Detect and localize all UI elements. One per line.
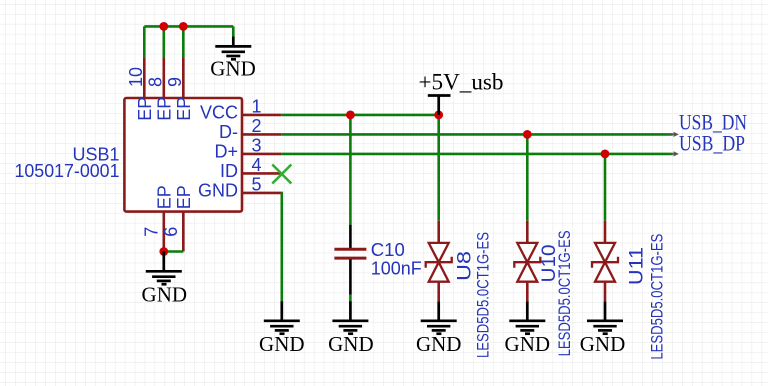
svg-text:EP: EP [135, 97, 155, 121]
pin 2 D- [242, 133, 281, 136]
svg-text:GND: GND [198, 181, 238, 201]
svg-text:4: 4 [251, 155, 261, 175]
junction U10/D- [523, 130, 532, 139]
svg-text:100nF: 100nF [371, 259, 422, 279]
svg-text:6: 6 [161, 227, 181, 237]
svg-text:LESD5D5.0CT1G-ES: LESD5D5.0CT1G-ES [555, 230, 574, 356]
svg-text:D+: D+ [214, 142, 238, 162]
wire VCC net [281, 114, 438, 117]
ground GND net pin5 [259, 301, 305, 356]
svg-text:GND: GND [580, 332, 626, 356]
wire to top ground [232, 26, 235, 37]
svg-text:105017-0001: 105017-0001 [15, 161, 120, 181]
svg-text:USB_DP: USB_DP [679, 131, 745, 156]
wire pin8 riser [163, 26, 166, 58]
wire GND pin5 [280, 193, 283, 302]
svg-text:GND: GND [142, 283, 188, 307]
svg-text:+5V_usb: +5V_usb [419, 70, 504, 95]
ground GND pins7-6 [142, 252, 188, 307]
svg-text:LESD5D5.0CT1G-ES: LESD5D5.0CT1G-ES [648, 234, 667, 360]
pin 10 [143, 58, 146, 98]
TVS diode U8 [426, 221, 493, 358]
pin 4 ID [242, 172, 281, 175]
svg-text:GND: GND [416, 332, 462, 356]
net arrow USB_DN [669, 133, 675, 135]
pin 7 [163, 212, 166, 252]
svg-text:GND: GND [259, 332, 305, 356]
wire USB_DP net [281, 153, 673, 156]
TVS diode U11 [592, 221, 667, 360]
svg-text:ID: ID [220, 161, 238, 181]
wire U8 branch [437, 115, 440, 221]
pin 3 D+ [242, 153, 281, 156]
wire U10 branch [526, 134, 529, 220]
svg-text:VCC: VCC [200, 103, 238, 123]
svg-text:EP: EP [174, 185, 194, 209]
pin 1 VCC [242, 114, 281, 117]
svg-text:1: 1 [251, 97, 261, 117]
wire C10 to ground [349, 295, 352, 302]
junction U11/D+ [601, 150, 610, 159]
ground GND U10 [505, 301, 551, 356]
ground GND C10 [328, 301, 374, 356]
no-connect X on ID pin [272, 165, 291, 184]
svg-text:D-: D- [219, 122, 238, 142]
svg-text:GND: GND [210, 56, 256, 80]
junction C10/VCC [346, 111, 355, 120]
svg-text:3: 3 [251, 136, 261, 156]
ground GND U8 [416, 301, 462, 356]
svg-text:EP: EP [154, 185, 174, 209]
svg-text:9: 9 [165, 77, 185, 87]
TVS diode U10 [514, 221, 574, 357]
svg-text:GND: GND [505, 332, 551, 356]
net arrow USB_DP [669, 153, 675, 155]
junction top B [179, 22, 188, 31]
pin 6 [182, 212, 185, 252]
wire U11 branch [604, 154, 607, 221]
wire pin9 riser [182, 26, 185, 58]
ground GND top [210, 37, 256, 81]
svg-text:EP: EP [174, 97, 194, 121]
junction top A [159, 22, 168, 31]
capacitor C10 [334, 225, 421, 295]
svg-text:8: 8 [146, 77, 166, 87]
svg-text:EP: EP [154, 97, 174, 121]
svg-text:7: 7 [142, 227, 162, 237]
ground GND U11 [580, 301, 626, 356]
wire USB_DN net [281, 133, 673, 136]
svg-text:U8: U8 [454, 251, 475, 281]
svg-text:2: 2 [251, 116, 261, 136]
svg-text:GND: GND [328, 332, 374, 356]
power port +5V_usb [419, 70, 504, 115]
svg-text:5: 5 [251, 175, 261, 195]
pin 8 [163, 58, 166, 98]
wire pins 7-6 link [164, 250, 184, 253]
junction +5V/U8 [434, 111, 443, 120]
wire C10 branch [349, 115, 352, 225]
connector USB1 [15, 58, 282, 252]
svg-text:U11: U11 [626, 247, 647, 285]
junction pin7 [159, 247, 168, 256]
svg-text:C10: C10 [371, 240, 405, 260]
pin 5 GND [242, 192, 281, 195]
wire top horizontal net [144, 25, 233, 28]
svg-text:LESD5D5.0CT1G-ES: LESD5D5.0CT1G-ES [474, 232, 493, 358]
svg-text:10: 10 [126, 67, 146, 87]
pin 9 [182, 58, 185, 98]
wire pin10 riser [143, 26, 146, 58]
